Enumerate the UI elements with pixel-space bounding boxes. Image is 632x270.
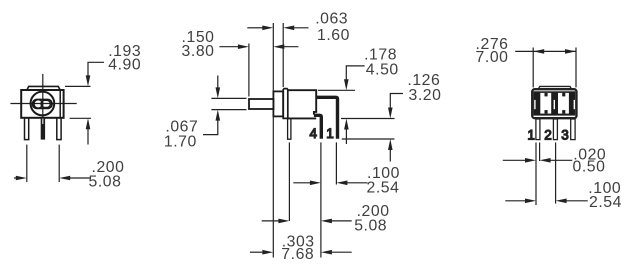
body-bottom extension line (right) bbox=[341, 118, 395, 120]
extension lines below right-view legs bbox=[535, 143, 537, 206]
extension line below front leg bbox=[288, 142, 290, 221]
extension line below lead 1 bbox=[335, 142, 337, 184]
leg pin 3 bbox=[571, 119, 575, 140]
dim .178 leader and arrows bbox=[318, 89, 355, 91]
svg-text:7.68: 7.68 bbox=[281, 246, 314, 263]
bushing bbox=[273, 91, 283, 116]
svg-text:4.90: 4.90 bbox=[108, 56, 141, 73]
svg-text:3.20: 3.20 bbox=[409, 87, 442, 104]
switch body outline bbox=[21, 90, 63, 118]
flange plate bbox=[283, 89, 288, 119]
dim .063 arrows (dimension line y=27.8) bbox=[247, 27, 263, 29]
svg-text:2.54: 2.54 bbox=[589, 194, 622, 211]
dim .067 arrows bbox=[217, 76, 219, 91]
dim .100/2.54 arrows (center view, y=182.8) bbox=[293, 182, 312, 184]
plunger bbox=[249, 99, 273, 109]
svg-text:0.50: 0.50 bbox=[573, 159, 606, 176]
dim .200/5.08 arrows (center view, y=221.5) bbox=[262, 220, 281, 222]
top lid with chamfers bbox=[27, 86, 60, 90]
leg pin right (hollow) bbox=[57, 118, 61, 140]
svg-text:5.08: 5.08 bbox=[89, 174, 122, 191]
top lid bbox=[538, 86, 571, 89]
leg pin left (hollow) bbox=[25, 118, 29, 140]
leg pin 1 bbox=[536, 119, 540, 140]
switch body (side) bbox=[288, 90, 316, 114]
long extension line at plunger end bbox=[272, 23, 274, 91]
svg-text:1: 1 bbox=[527, 127, 535, 142]
actuator outer stadium bbox=[33, 100, 53, 109]
actuator keyway circle bbox=[34, 100, 42, 108]
svg-text:2.54: 2.54 bbox=[367, 180, 400, 197]
dimension .200/5.08 extension lines below legs bbox=[26, 145, 28, 182]
horizontal centerline bbox=[10, 103, 76, 105]
svg-text:1: 1 bbox=[326, 126, 334, 141]
dimension .200 arrows bbox=[14, 177, 19, 179]
dim .150/3.80 extension line over plunger tip bbox=[248, 44, 250, 97]
dim .276/7.00 extension lines bbox=[532, 48, 534, 88]
body outline bbox=[532, 89, 576, 118]
dim .100/2.54 arrows (right view, y=200.8) bbox=[505, 200, 527, 202]
leg pin middle (solid) bbox=[41, 118, 45, 140]
svg-text:.063: .063 bbox=[315, 11, 348, 28]
svg-text:7.00: 7.00 bbox=[476, 49, 509, 66]
extension line at flange front bbox=[282, 23, 284, 87]
window 1 tabs bbox=[545, 93, 548, 97]
svg-text:1.60: 1.60 bbox=[317, 27, 350, 44]
svg-text:5.08: 5.08 bbox=[354, 218, 387, 235]
interior block bbox=[533, 91, 575, 115]
svg-text:2: 2 bbox=[544, 127, 552, 142]
svg-text:1.70: 1.70 bbox=[164, 134, 197, 151]
svg-text:4.50: 4.50 bbox=[366, 61, 399, 78]
window 1 bbox=[540, 93, 551, 114]
extension line below lead 4 bbox=[320, 142, 322, 257]
lead 4 (bent) bbox=[314, 114, 323, 139]
dim .150 arrows (dimension line y=46.7) bbox=[219, 46, 240, 48]
dim .303/7.68 arrows (y=249.3) bbox=[250, 251, 262, 253]
terminal slot 1 bbox=[534, 100, 536, 109]
bushing circle bbox=[31, 92, 55, 116]
svg-text:4: 4 bbox=[310, 126, 318, 141]
terminal slot 2 bbox=[553, 100, 555, 109]
svg-text:3: 3 bbox=[561, 127, 569, 142]
lead 1 (bent) bbox=[316, 96, 339, 139]
dim .126 leader and arrows bbox=[390, 94, 403, 111]
dimension .193/4.90 extension lines bbox=[65, 85, 91, 87]
terminal slot 3 bbox=[573, 100, 575, 109]
dim .067/1.70 extension lines left of plunger bbox=[211, 97, 246, 99]
leg pin 2 bbox=[553, 119, 557, 140]
vertical centerline bbox=[42, 74, 44, 118]
window 2 tabs bbox=[562, 93, 565, 97]
front leg (pins 1-3 edge-on) bbox=[288, 118, 291, 139]
actuator inner stadium bbox=[41, 100, 50, 107]
dim .276 leader and inside arrows bbox=[515, 50, 533, 52]
body inner vertical edge bbox=[59, 90, 61, 118]
svg-text:3.80: 3.80 bbox=[182, 43, 215, 60]
seating plane line bbox=[342, 138, 395, 140]
dimension .193 leader and arrows bbox=[88, 62, 104, 78]
dim .020/0.50 arrows (y=160.3) bbox=[503, 159, 528, 161]
window 2 bbox=[558, 93, 569, 114]
